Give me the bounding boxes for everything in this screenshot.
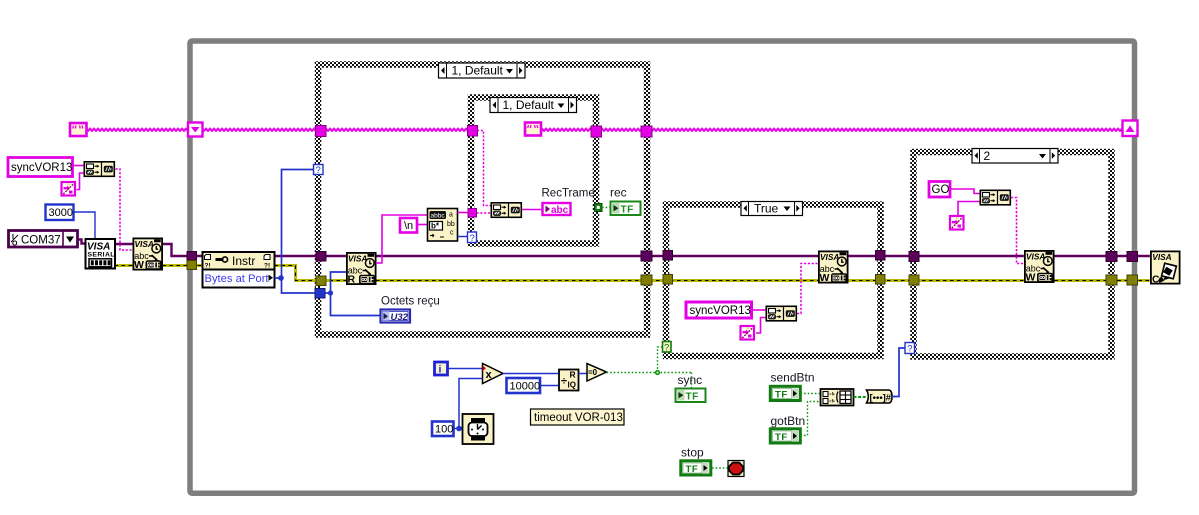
boolean array to number node (867, 390, 893, 404)
junction dot at bytes output (278, 275, 284, 281)
end of line constant (case 2) (950, 216, 964, 230)
concatenate strings (True case) (766, 306, 796, 321)
svg-text:3000: 3000 (49, 207, 73, 219)
svg-text:2: 2 (984, 149, 991, 163)
wire bytes at port up to case selector (275, 170, 314, 279)
wire syncVOR13 to concat T (753, 309, 766, 311)
svg-text:?: ? (907, 344, 912, 355)
control sendBtn TF (770, 386, 800, 400)
tunnel: magenta on case B left (468, 126, 478, 137)
tunnel: purple on case A right (641, 251, 652, 261)
svg-text:x: x (486, 369, 493, 381)
svg-text:stop: stop (681, 446, 704, 460)
svg-text:1, Default: 1, Default (503, 98, 555, 112)
svg-text:b*: b* (431, 222, 440, 231)
wire eol to concat (77, 173, 84, 190)
svg-text:[•••]#: [•••]# (870, 393, 892, 404)
numeric constant 3000 (46, 205, 74, 221)
svg-text:?!: ?! (205, 263, 211, 270)
svg-text:C: C (1152, 274, 1160, 286)
end of line constant (True case) (741, 326, 755, 340)
VISA write 1 (133, 238, 162, 271)
quotient and remainder node (559, 370, 579, 391)
svg-text:syncVOR13: syncVOR13 (690, 305, 751, 317)
build array node (821, 389, 854, 406)
svg-text:SERIAL: SERIAL (88, 252, 115, 259)
wire eol T to concat T (756, 318, 766, 334)
wire bool-to-num up to case 2 selector (892, 348, 905, 397)
wire: shift-register feed into case B dropping to concat (477, 131, 491, 206)
tunnel: magenta on case B right (591, 126, 602, 137)
wire quotient R to equal-zero (579, 373, 588, 375)
wire: VISA resource purple main line (115, 244, 1150, 256)
svg-text:sendBtn: sendBtn (771, 371, 815, 385)
indicator sync TF (676, 389, 706, 403)
wire concat2 to RecTrame (522, 209, 542, 211)
wire multiply out to quotient (503, 373, 559, 375)
tunnel: olive on True right (876, 275, 886, 285)
svg-text:syncVOR13: syncVOR13 (11, 162, 72, 174)
wire 10000 to quotient (540, 385, 559, 387)
case True label (741, 202, 803, 216)
svg-text:sync: sync (678, 373, 703, 387)
tunnel: olive on loop right (1127, 275, 1138, 285)
tunnel: olive on loop left (187, 261, 197, 270)
svg-text:R: R (348, 274, 356, 286)
tunnel: magenta on case A left (316, 126, 327, 137)
svg-text:COM37: COM37 (21, 235, 61, 247)
wire bytes at port down into case A (282, 278, 316, 293)
empty string constant in case B (525, 123, 541, 136)
svg-text:True: True (754, 202, 779, 216)
svg-text:10000: 10000 (510, 381, 541, 393)
VISA close node (1151, 251, 1180, 285)
case structure B (inner "1, Default") border (471, 98, 596, 244)
wire 3000 to VISA serial timeout (74, 212, 96, 239)
tunnel: purple on True right (876, 251, 886, 261)
svg-text:c: c (450, 230, 454, 237)
tunnel: blue on case A left (315, 289, 325, 299)
junction ring on green wire (655, 370, 660, 375)
case structure 2 border (914, 152, 1112, 357)
svg-text:VISA: VISA (348, 254, 367, 264)
tunnel: olive on case 2 right (1106, 275, 1117, 285)
svg-text:VISA: VISA (1152, 252, 1171, 262)
tunnel: purple on case A left (316, 252, 326, 262)
wire inside case A: to VISA read count and U32 (325, 272, 346, 293)
svg-text:timeout VOR-013: timeout VOR-013 (534, 412, 623, 424)
tunnel: magenta on case A right (641, 126, 652, 137)
wire concat T to VISA write 2 (797, 264, 818, 314)
case 2 label (972, 149, 1058, 164)
wire \n to match pattern (418, 224, 428, 226)
case A label "1, Default" (439, 63, 526, 78)
VISA write 3 (1025, 251, 1054, 284)
tunnel: purple on True left (663, 251, 673, 261)
concatenate strings 2 (in case B) (491, 203, 521, 218)
wire green tunnel to rec indicator (602, 207, 611, 209)
svg-text:Bytes at Port: Bytes at Port (205, 273, 270, 285)
case structure True border (666, 205, 881, 357)
svg-text:U32: U32 (391, 312, 409, 323)
string constant syncVOR13 (outside) (8, 158, 73, 177)
control gotBtn TF (770, 429, 800, 443)
indicator rec (TF) (611, 202, 641, 216)
end of line constant 1 (62, 182, 76, 196)
wire: error cluster olive dashed main line (115, 266, 1150, 281)
selector tunnel ? on case A left (314, 165, 324, 177)
while loop frame (190, 41, 1135, 493)
svg-text:IQ: IQ (568, 381, 576, 390)
iteration terminal i (435, 362, 448, 376)
svg-text:?: ? (664, 342, 669, 353)
VISA configure serial port node (86, 239, 116, 269)
wire COM37 to VISA serial (78, 240, 86, 244)
wait (ms) node (463, 414, 494, 444)
wire tunnel to concat2 lower input (477, 212, 491, 214)
svg-text:O: O (12, 241, 18, 248)
svg-text:R: R (570, 370, 576, 380)
wire concat1 out to VISA write buf input (116, 169, 133, 250)
svg-text:RecTrame: RecTrame (542, 188, 595, 200)
svg-text:÷: ÷ (561, 376, 567, 388)
wire: main string wire (magenta) across top (88, 127, 1123, 133)
tunnel: olive on case A left (316, 276, 326, 286)
junction dot inside case A (328, 290, 333, 295)
case B label "1, Default" (490, 98, 577, 113)
wire 100 to wait and up to multiply (454, 428, 463, 430)
svg-text:?: ? (316, 165, 321, 176)
wire stop to loop condition (712, 467, 728, 469)
selector tunnel ? on case True left (green) (663, 342, 672, 354)
wire concat D to VISA write 3 (1011, 198, 1024, 264)
shift register left (down arrow) (188, 123, 203, 137)
svg-text:=0: =0 (588, 368, 598, 377)
svg-text:?!: ?! (264, 263, 270, 270)
tunnel: olive on case 2 left (909, 275, 919, 285)
selector tunnel ? on case 2 left (blue) (905, 343, 915, 355)
VISA write 2 (819, 251, 848, 284)
selector tunnel ? on case B left (468, 232, 477, 244)
match pattern node (428, 209, 458, 242)
wire eol D to concat D (958, 202, 980, 216)
tunnel: olive on True left (663, 275, 673, 285)
tunnel: purple on loop left (187, 252, 197, 261)
svg-text:?: ? (470, 233, 475, 244)
tunnel: purple on case 2 left (909, 252, 919, 262)
string constant syncVOR13 (in True case) (686, 302, 752, 318)
wires buttons to build array (green dotted) (801, 394, 821, 436)
svg-text:bb: bb (447, 221, 455, 228)
svg-text:i: i (439, 364, 442, 376)
shift register right (up arrow) (1123, 121, 1138, 137)
control stop TF (681, 461, 711, 475)
svg-text:\n: \n (404, 220, 413, 232)
numeric constant 100 (432, 422, 454, 437)
string constant backslash-n (400, 218, 417, 233)
tunnel: purple on loop right (1127, 252, 1138, 262)
tunnel: pink on case B left (match in) (468, 209, 477, 218)
wire =0 out to sync / true case selector (green dotted) (607, 347, 692, 388)
tunnel: purple on case 2 right (1106, 252, 1117, 262)
svg-text:100: 100 (435, 424, 453, 436)
svg-text:Octets reçu: Octets reçu (381, 296, 440, 308)
string constant GO (929, 182, 950, 198)
svg-text:abbc: abbc (431, 213, 446, 220)
indicator RecTrame (pink abc) (543, 203, 571, 216)
free label timeout VOR-013 (531, 409, 625, 425)
wire GO to concat D (950, 189, 980, 194)
case structure A (outer "1, Default") border (318, 65, 647, 335)
property node Instr / Bytes at Port (203, 252, 275, 288)
multiply function (483, 364, 504, 384)
wire match after-substring to case B tunnel (458, 212, 469, 214)
wire match offset to case B selector (458, 236, 468, 238)
tunnel: green with white dot on case B right (595, 204, 603, 212)
svg-text:gotBtn: gotBtn (771, 414, 806, 428)
svg-text:Instr: Instr (232, 254, 255, 268)
wire VISA read buffer up to match pattern (376, 215, 428, 263)
svg-text:abc: abc (551, 205, 569, 216)
I/O combo constant COM37 (9, 231, 78, 248)
wire i to multiply (449, 368, 483, 370)
VISA read node (347, 253, 376, 286)
tunnel: olive on case A right (641, 275, 652, 285)
loop condition terminal (stop sign) (728, 461, 744, 477)
svg-text:1, Default: 1, Default (452, 64, 504, 78)
concatenate strings 1 (84, 162, 114, 177)
indicator U32 (381, 310, 411, 323)
empty string constant (top left) (70, 123, 87, 136)
numeric constant 10000 (507, 378, 541, 393)
wire syncVOR13 to concat (74, 165, 84, 167)
svg-text:a: a (449, 212, 453, 219)
svg-text:GO: GO (932, 184, 950, 196)
svg-text:rec: rec (610, 186, 627, 200)
concatenate strings (case 2) (980, 190, 1010, 205)
equal to zero function (587, 364, 607, 382)
wire build array to bool-array-to-number (green dashed) (854, 396, 867, 398)
